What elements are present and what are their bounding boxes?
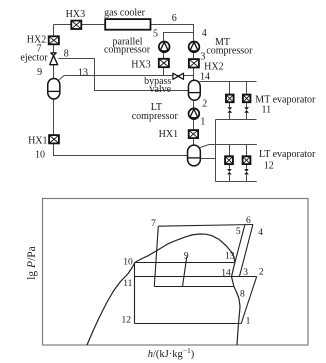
cycle line 10-11-12 expansion vertical [134, 263, 136, 324]
wire LT valve to bottom header 2 [246, 175, 248, 182]
svg-text:ejector: ejector [20, 53, 48, 64]
LT evaporator box 2 [243, 156, 251, 164]
svg-text:12: 12 [264, 161, 274, 172]
svg-text:6: 6 [172, 13, 177, 24]
wire LT compressor to HX1 right [193, 120, 195, 129]
svg-text:HX3: HX3 [131, 59, 150, 70]
svg-text:1: 1 [246, 317, 251, 327]
LT evaporator box 1 [225, 156, 233, 164]
MT flash vessel [188, 80, 200, 100]
p-h diagram plot box [43, 199, 309, 346]
wire ejector suction 8 path [58, 59, 188, 91]
gas cooler [105, 19, 150, 30]
svg-text:HX1: HX1 [159, 129, 178, 140]
cycle line 1-2 LT compression [241, 277, 257, 324]
svg-text:valve: valve [149, 84, 171, 95]
cycle line 3-4 MT compression [239, 225, 253, 277]
wire LT valve to bottom header 1 [229, 175, 231, 182]
wire MT suction from vessel point 14 [193, 68, 195, 80]
expansion valve LT 2 [244, 169, 249, 175]
svg-text:6: 6 [246, 216, 251, 226]
svg-text:10: 10 [123, 257, 133, 267]
svg-text:13: 13 [225, 252, 235, 262]
svg-text:10: 10 [35, 149, 45, 160]
svg-text:lg P/Pa: lg P/Pa [26, 246, 38, 280]
cycle line 9 diffuser tick [183, 257, 187, 287]
cycle line 10-13 separator level [135, 262, 235, 264]
svg-text:4: 4 [258, 228, 263, 238]
svg-text:compressor: compressor [206, 45, 253, 56]
cycle line 13-5 parallel compression [235, 225, 245, 263]
svg-text:2: 2 [259, 268, 264, 278]
wire HX1 right to LT vessel [193, 139, 195, 145]
wire parallel compressor suction drop [163, 68, 165, 76]
svg-text:9: 9 [37, 67, 42, 78]
wire MT evap box to valve 1 [229, 103, 231, 108]
MT evaporator box 2 [243, 95, 251, 103]
svg-text:compressor: compressor [132, 111, 179, 122]
svg-text:8: 8 [240, 289, 245, 299]
expansion valve MT 1 [228, 107, 233, 113]
expansion valve MT 2 [244, 107, 249, 113]
svg-text:4: 4 [202, 28, 207, 39]
svg-text:11: 11 [261, 105, 271, 116]
svg-text:3: 3 [243, 268, 248, 278]
LT compressor [189, 108, 200, 119]
svg-text:gas cooler: gas cooler [104, 7, 145, 18]
wire MT evap inlet drop 2 [246, 82, 248, 95]
heat exchanger HX3 hot side [71, 21, 81, 29]
MT evaporator box 1 [226, 95, 234, 103]
svg-text:HX1: HX1 [28, 135, 47, 146]
heat exchanger HX2 hot side [49, 36, 59, 44]
svg-text:2: 2 [202, 99, 207, 110]
wire separator to HX1 left [53, 99, 55, 134]
cycle line 12-1 LT evaporator level [135, 323, 242, 325]
svg-text:11: 11 [123, 279, 132, 289]
expansion valve LT 1 [227, 169, 232, 175]
svg-text:9: 9 [184, 251, 189, 261]
wire ejector to separator [53, 65, 55, 78]
wire liquid riser [215, 120, 217, 182]
heat exchanger HX1 hot side [49, 135, 59, 143]
svg-text:5: 5 [153, 29, 158, 40]
wire LT evap inlet drop 2 [246, 145, 248, 157]
svg-text:14: 14 [221, 268, 231, 278]
svg-text:13: 13 [78, 67, 88, 78]
svg-text:8: 8 [64, 49, 69, 60]
cycle line 7 expansion to mixing [154, 226, 158, 286]
svg-text:1: 1 [200, 117, 205, 128]
cycle line mixing to 8 [154, 286, 234, 288]
svg-text:HX3: HX3 [66, 9, 85, 20]
wire LT evaporator bottom header [216, 181, 257, 183]
svg-text:12: 12 [122, 316, 132, 326]
wire LT vessel right stub [201, 158, 216, 160]
wire MT valve to bottom header 1 [229, 113, 231, 120]
wire MT vessel bottom to LT compressor [193, 101, 195, 108]
wire branch to parallel compressor [164, 33, 194, 41]
wire MT evaporator top header [199, 81, 256, 83]
cycle line 11-14-3-2 vessel level [135, 276, 257, 278]
ejector [50, 53, 58, 65]
wire gas cooler top line and down to MT compressor [54, 25, 194, 41]
LT vessel [188, 145, 201, 166]
wire MT compressor discharge [193, 53, 195, 58]
heat exchanger HX1 cold side [189, 130, 198, 138]
wire LT evap box to valve 2 [246, 165, 248, 169]
wire HX1 left down and right to LT vessel [54, 144, 188, 155]
wire parallel compressor discharge [163, 53, 165, 58]
svg-text:compressor: compressor [104, 45, 151, 56]
wire MT valve to bottom header 2 [246, 113, 248, 120]
wire 13 line separator to point 14 [59, 76, 193, 80]
wire LT evap box to valve 1 [229, 165, 231, 169]
wire MT evaporator bottom header [216, 119, 257, 121]
wire LT evap inlet drop 1 [229, 145, 231, 157]
svg-text:14: 14 [200, 72, 210, 83]
wire HX2 left drop from top line [53, 25, 55, 36]
wire MT evap inlet drop 1 [229, 82, 231, 95]
heat exchanger HX3 cold side [159, 59, 169, 67]
svg-text:LT evaporator: LT evaporator [259, 149, 316, 160]
wire HX2 left to ejector [53, 45, 55, 53]
parallel compressor [159, 42, 170, 53]
bypass valve [173, 73, 184, 79]
separator vessel [48, 78, 60, 99]
heat exchanger HX2 cold side [189, 59, 199, 67]
MT compressor [189, 42, 200, 53]
svg-text:5: 5 [236, 227, 241, 237]
wire LT evaporator top header [200, 145, 257, 148]
cycle line 7-6 gas cooler [158, 225, 253, 227]
saturation dome curve [87, 234, 240, 345]
wire MT evap box to valve 2 [246, 103, 248, 108]
svg-text:7: 7 [151, 219, 156, 229]
